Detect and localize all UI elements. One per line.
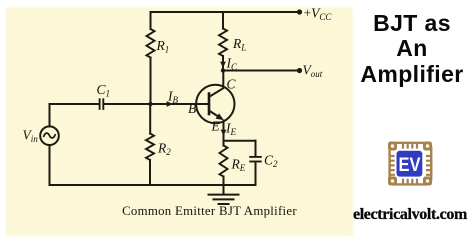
svg-text:R2: R2 bbox=[157, 141, 171, 158]
svg-text:C1: C1 bbox=[97, 82, 111, 99]
wire: RL bottom lead to collector node (carries Ic) bbox=[222, 56, 224, 71]
svg-text:E: E bbox=[211, 119, 221, 134]
transistor Q1 emitter stroke bbox=[210, 111, 222, 119]
chip outer frame bbox=[390, 143, 432, 185]
chip corner pad TL bbox=[388, 142, 397, 151]
terminal: Vout dot bbox=[297, 68, 302, 73]
wire: +Vcc top rail bbox=[151, 11, 300, 13]
svg-text:C: C bbox=[227, 77, 237, 92]
arrow: Ie current bbox=[221, 130, 227, 136]
title: BJT as An Amplifier bbox=[351, 11, 473, 87]
ground stem bbox=[223, 185, 225, 194]
corner hole TR bbox=[426, 144, 429, 147]
resistor R2 bbox=[146, 134, 154, 161]
ground bar 3 bbox=[219, 203, 229, 205]
wire: RE bottom lead to ground rail bbox=[223, 177, 225, 186]
resistor RL bbox=[219, 29, 227, 57]
chip die bbox=[396, 150, 424, 178]
capacitor C2 top plate bbox=[250, 156, 261, 158]
chip pins top bbox=[403, 142, 417, 149]
wire: R2 bottom lead to ground rail bbox=[149, 160, 151, 185]
ac source Vin body bbox=[40, 126, 59, 145]
svg-text:Vin: Vin bbox=[23, 128, 39, 145]
logo: ElectricalVolt chip bbox=[386, 139, 435, 189]
resistor RE bbox=[220, 146, 228, 177]
transistor Q1 emitter arrowhead bbox=[216, 113, 224, 120]
chip pins left bbox=[389, 156, 396, 175]
corner hole BL bbox=[391, 179, 394, 182]
svg-text:RE: RE bbox=[231, 157, 246, 174]
svg-text:B: B bbox=[188, 101, 196, 116]
svg-text:IB: IB bbox=[167, 89, 179, 106]
resistor R1 bbox=[147, 29, 155, 58]
transistor Q1 body bbox=[196, 85, 234, 123]
chip pins bottom bbox=[403, 179, 417, 186]
wire: C2 top lead bbox=[255, 141, 257, 156]
ac source Vin sine mark bbox=[44, 133, 55, 138]
svg-text:RL: RL bbox=[232, 36, 246, 53]
cream schematic panel background bbox=[7, 8, 352, 235]
svg-text:Vout: Vout bbox=[303, 63, 323, 80]
wire: ground rail bbox=[50, 184, 256, 186]
wire: emitter down to RE (carries Ie) bbox=[223, 121, 225, 141]
chip corner pad TR bbox=[423, 142, 432, 151]
wire: base node to transistor base bbox=[151, 103, 209, 105]
svg-text:IC: IC bbox=[226, 56, 239, 73]
svg-text:+VCC: +VCC bbox=[304, 6, 333, 23]
transistor Q1 base bar bbox=[208, 94, 211, 115]
ground bar 1 bbox=[209, 194, 239, 196]
wire: collector node down to transistor collector bbox=[210, 71, 224, 97]
wire: R1 top lead from rail bbox=[150, 12, 152, 29]
capacitor C1 right plate bbox=[102, 99, 104, 109]
wire: RL top lead from rail bbox=[222, 12, 224, 29]
wire: source bottom riser bbox=[49, 145, 51, 185]
wire: base node down to R2 bbox=[149, 104, 151, 134]
svg-text:C2: C2 bbox=[264, 153, 278, 170]
wire: collector node to Vout terminal bbox=[223, 70, 300, 72]
chip corner pad BL bbox=[388, 177, 397, 186]
capacitor C2 bottom plate bbox=[250, 161, 261, 163]
svg-text:EV: EV bbox=[399, 154, 421, 176]
wire: input coupling from source to C1 bbox=[50, 103, 99, 105]
wire: source top riser bbox=[49, 104, 51, 127]
junction: collector node dot bbox=[221, 68, 225, 72]
arrow: Ib current bbox=[167, 101, 173, 107]
wire: emitter node down to RE top bbox=[223, 141, 225, 146]
corner hole BR bbox=[426, 179, 429, 182]
ground bar 2 bbox=[214, 198, 234, 200]
junction: base node dot bbox=[148, 102, 152, 106]
wire: R1 bottom lead to base node bbox=[150, 58, 152, 105]
chip pins right bbox=[426, 156, 433, 175]
corner hole TL bbox=[391, 144, 394, 147]
terminal: +Vcc dot bbox=[297, 9, 302, 14]
svg-text:Common Emitter BJT Amplifier: Common Emitter BJT Amplifier bbox=[122, 204, 297, 218]
wire: C2 bottom lead to ground rail bbox=[255, 162, 257, 185]
chip corner pad BR bbox=[423, 177, 432, 186]
wire: emitter node tee to C2 branch bbox=[224, 140, 256, 142]
capacitor C1 left plate bbox=[99, 99, 101, 109]
site url bbox=[350, 206, 470, 224]
wire: C1 to base node (carries Ib) bbox=[104, 103, 150, 105]
svg-text:R1: R1 bbox=[156, 38, 170, 55]
arrow: Ic current bbox=[220, 62, 226, 68]
svg-text:IE: IE bbox=[225, 121, 237, 138]
